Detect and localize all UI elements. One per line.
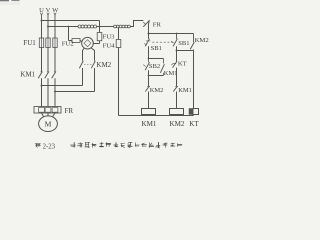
fuse FU3	[93, 27, 102, 44]
transformer T coil 2	[114, 25, 131, 28]
control rail top	[148, 33, 194, 35]
svg-text:KT: KT	[189, 120, 199, 128]
wire selfhold to KT coil	[193, 51, 195, 109]
svg-text:KM2: KM2	[170, 120, 185, 128]
wire V phase upper	[47, 20, 49, 38]
contact KT delayed	[171, 61, 177, 67]
button SB1 NO	[171, 34, 177, 47]
svg-text:2-23: 2-23	[43, 143, 56, 150]
contact KM1 aux selfhold	[148, 59, 165, 77]
wire KT coil to rail	[193, 115, 195, 116]
fuse group FU1	[39, 38, 57, 48]
motor leads	[42, 113, 56, 117]
fuse FU4	[116, 28, 121, 48]
wire to KM2 coil	[176, 92, 178, 109]
svg-text:U: U	[39, 7, 44, 14]
supply arrows	[40, 13, 56, 21]
svg-text:FU2: FU2	[62, 40, 74, 47]
wire rectifier DC left	[83, 48, 85, 60]
thermal relay FR heaters	[34, 107, 61, 114]
wire rectifier DC right	[91, 48, 95, 61]
svg-text:KM1: KM1	[20, 71, 35, 79]
phase labels U V W	[39, 7, 59, 14]
svg-text:KM2: KM2	[96, 61, 111, 69]
svg-text:KM1: KM1	[178, 87, 192, 94]
wire SB1b down	[176, 46, 178, 61]
coil KT	[189, 109, 199, 115]
svg-text:SB1: SB1	[178, 40, 189, 47]
svg-text:FR: FR	[65, 107, 74, 115]
svg-text:SB1: SB1	[151, 45, 162, 52]
button SB1 NC	[144, 34, 150, 47]
wire W phase lower	[54, 78, 56, 106]
caption figure 2-23	[35, 142, 182, 150]
svg-text:FU1: FU1	[23, 39, 36, 47]
wire control feed P1	[41, 20, 101, 28]
wire KT to KM1 interlock	[176, 68, 178, 87]
wire KM2 coil to rail	[176, 115, 178, 116]
contactor KM1 main contacts	[38, 72, 56, 79]
svg-text:FU3: FU3	[103, 34, 116, 41]
mech link SB1	[152, 41, 173, 43]
wire U phase mid	[41, 48, 43, 72]
svg-text:SB2: SB2	[149, 63, 160, 70]
wire transformer feed P2	[47, 26, 78, 28]
fuse FU2	[68, 26, 83, 43]
contact KM2 interlock	[145, 86, 150, 91]
wire to KM1 coil	[148, 92, 150, 109]
wire FU4 to bottom rail	[118, 48, 120, 116]
button SB2 NO	[143, 59, 149, 71]
wire braking A	[41, 68, 83, 87]
svg-text:FR: FR	[153, 22, 162, 29]
wire V phase lower	[47, 78, 49, 106]
coil KM1	[142, 109, 156, 115]
svg-text:FU4: FU4	[103, 42, 116, 49]
wire W phase upper	[54, 20, 56, 38]
scan artifact top edge	[0, 0, 20, 5]
wire braking B	[54, 68, 95, 93]
control rail bottom	[119, 115, 194, 117]
wire KM1 coil to rail	[148, 115, 150, 116]
svg-text:KM1: KM1	[142, 120, 157, 128]
svg-text:V: V	[46, 7, 51, 14]
wire SB2 to KM2 interlock	[148, 70, 150, 86]
svg-text:M: M	[45, 120, 52, 129]
wire U phase lower	[41, 78, 43, 106]
wire W phase mid	[54, 48, 56, 72]
svg-text:KM2: KM2	[195, 37, 209, 44]
FR contact NC	[143, 20, 150, 33]
svg-text:KM1: KM1	[164, 70, 178, 77]
wire coil to FR	[130, 21, 143, 27]
contact KM1 interlock	[173, 86, 178, 91]
svg-text:KM2: KM2	[150, 87, 164, 94]
wire V phase mid	[47, 48, 49, 72]
contact KM2 selfhold	[177, 34, 195, 51]
svg-text:W: W	[52, 7, 59, 14]
coil KM2	[170, 109, 184, 115]
wire between coils	[97, 26, 114, 28]
rectifier VC	[82, 37, 94, 49]
wire SB1 to SB2	[148, 46, 150, 59]
svg-text:KT: KT	[178, 61, 187, 68]
transformer T coil 1	[78, 25, 97, 28]
contactor KM2 braking contacts	[79, 60, 95, 68]
motor M	[39, 116, 58, 132]
wire U phase upper	[41, 20, 43, 38]
